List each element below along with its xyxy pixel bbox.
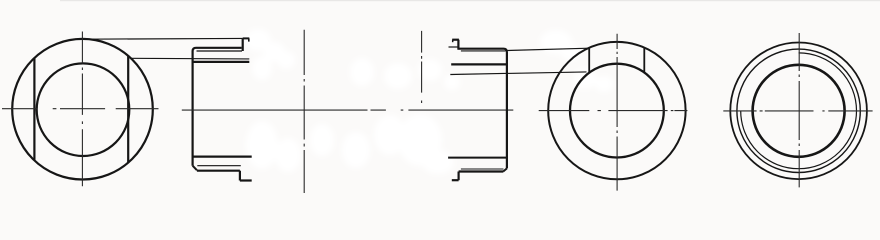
end view E inner circle: [753, 65, 845, 157]
section view C bottom tab line: [452, 179, 459, 181]
leader from section C wall corner to ring D notch top: [507, 48, 589, 50]
section view B bottom chamfer: [193, 166, 197, 171]
projection leader from circle top to section B tab: [85, 37, 243, 40]
section view C upper inner thick line: [451, 63, 507, 65]
section view C step top with rounded corner and right wall: [458, 49, 507, 169]
front view A outer circle: [12, 39, 153, 180]
front view A right flat chord: [127, 56, 129, 163]
watermark erasure blobs: [245, 29, 613, 174]
section view C tab left tick: [452, 40, 454, 43]
end view E second circle: [737, 49, 860, 172]
projection leader from chord top to section B: [130, 57, 249, 60]
section view B vertical centerline: [303, 30, 305, 193]
front view A horizontal centerline: [2, 108, 159, 110]
ring view D inner circle: [570, 64, 664, 158]
end view E vertical centerline: [798, 33, 800, 187]
shared horizontal centerline through section views: [182, 109, 514, 111]
front view A left flat chord: [33, 58, 35, 160]
section view B step inner bottom thin line: [197, 165, 241, 167]
section view B bottom tab line: [240, 179, 252, 181]
section view C lower thick line: [448, 157, 507, 159]
section view C bottom chamfer: [503, 168, 507, 171]
section view B lower inner thick line: [193, 156, 252, 158]
section view B step inner thin line: [197, 50, 243, 52]
ring view D horizontal centerline: [539, 110, 688, 112]
section view C step inner thin line: [461, 50, 506, 52]
section view B step bottom: [197, 170, 240, 172]
end view E outer circle: [730, 43, 867, 180]
section view B tab right tick: [248, 38, 250, 41]
front view A inner circle (bore): [37, 63, 130, 156]
front view A vertical centerline: [81, 32, 83, 187]
section view B tab left vertical: [242, 38, 244, 51]
leader to ring D notch bottom: [450, 72, 586, 75]
ring view D vertical centerline: [616, 34, 618, 191]
section view C vertical centerline: [421, 31, 423, 103]
section view B upper inner thick line: [193, 61, 250, 63]
section view C tab top cap: [452, 39, 459, 41]
scan edge shadow top: [60, 0, 880, 1]
section view C step inner bottom thin line: [461, 168, 504, 170]
section view C step bottom: [459, 170, 504, 172]
section view B tab top cap: [243, 37, 250, 39]
ring view D notch right edge: [643, 48, 645, 73]
ring view D notch left edge: [588, 48, 590, 73]
section view C thin stub left of tab: [449, 46, 459, 48]
end view E third circle (three-quarter arc, fades at top-left): [741, 53, 857, 169]
section view B bottom tab vertical: [239, 171, 241, 181]
section view B step top with rounded corner and left wall: [193, 48, 242, 166]
ring view D outer circle: [548, 42, 685, 179]
end view E horizontal centerline: [723, 110, 872, 112]
section view C tab vertical: [457, 40, 459, 50]
section view C bottom tab vertical: [458, 172, 460, 181]
